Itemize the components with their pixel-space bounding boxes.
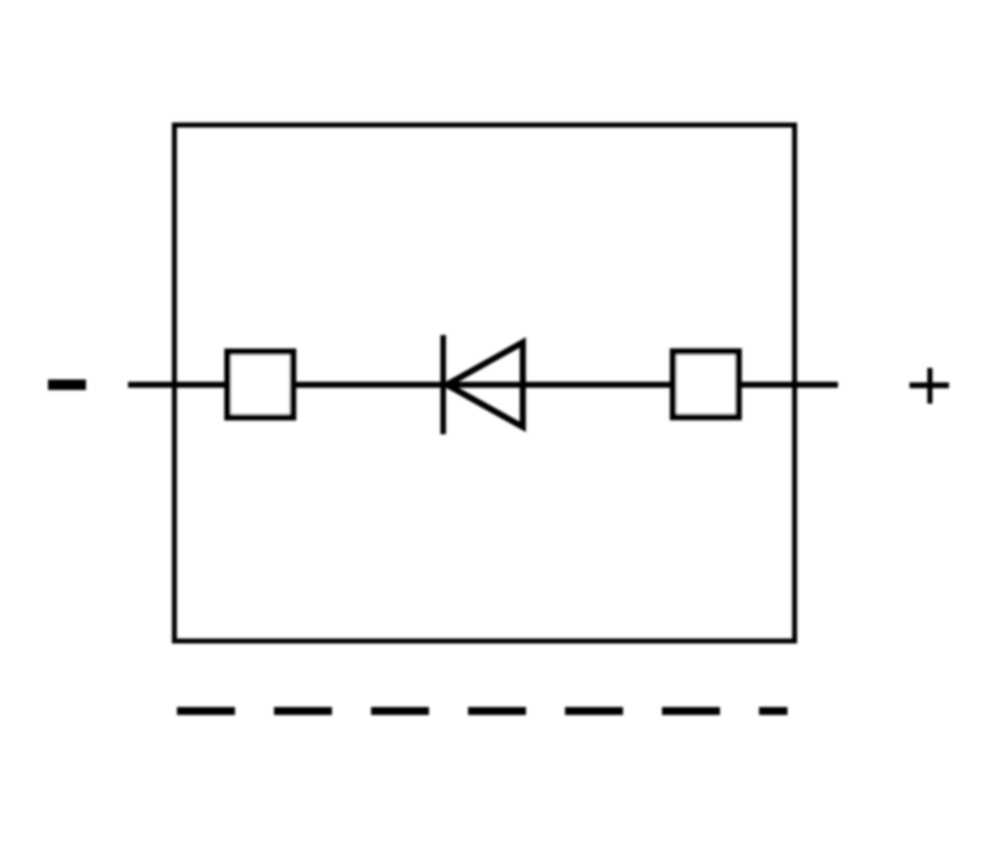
plus terminal label xyxy=(910,382,950,388)
clamp contact square (right) xyxy=(673,352,739,418)
wire segment: left clamp to diode cathode xyxy=(292,382,445,388)
terminal block housing outline xyxy=(174,125,794,641)
wire segment: left lead (minus terminal to left clamp) xyxy=(128,382,230,388)
clamp contact square (left) xyxy=(228,352,293,418)
wire segment: diode to right clamp xyxy=(443,382,676,388)
DIN rail (dashed mounting line) xyxy=(177,707,788,715)
diode D1: anode triangle (pointing left) xyxy=(447,342,523,427)
minus terminal label xyxy=(48,380,86,391)
wire segment: right clamp to right lead (plus terminal) xyxy=(737,382,838,388)
diode D1: cathode bar xyxy=(440,335,446,434)
